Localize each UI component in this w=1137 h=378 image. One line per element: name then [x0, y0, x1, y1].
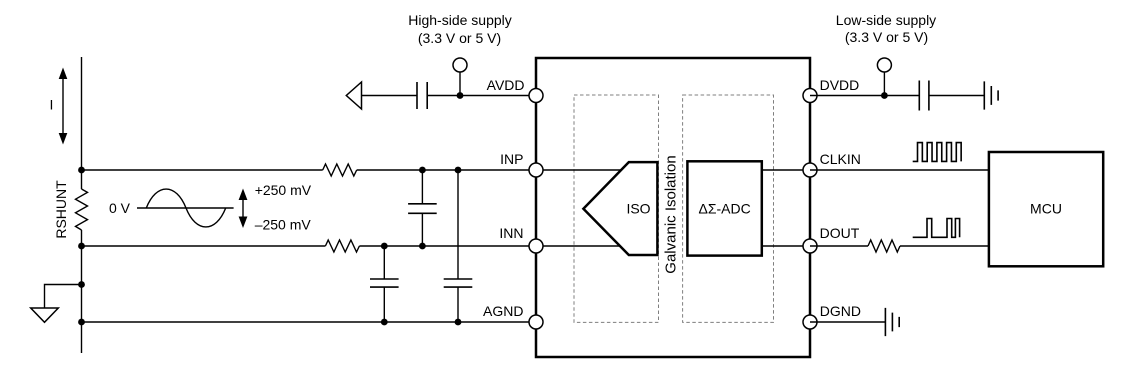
data waveform glyph [913, 219, 960, 238]
pin DOUT [803, 239, 817, 253]
node AGND cap C-INN [381, 319, 388, 326]
resistor R-INN [325, 240, 359, 252]
svg-text:DGND: DGND [820, 303, 861, 319]
svg-text:DVDD: DVDD [820, 77, 860, 93]
capacitor C-AVDD [417, 82, 427, 109]
svg-text:Low-side supply: Low-side supply [836, 12, 936, 28]
node ground branch junction [78, 281, 85, 288]
wire INN row [82, 245, 537, 247]
svg-text:CLKIN: CLKIN [820, 151, 861, 167]
svg-text:High-side supply: High-side supply [408, 12, 512, 28]
capacitor C-INN to AGND [370, 246, 399, 322]
capacitor C-diff INP-INN [408, 170, 437, 246]
capacitor C-DVDD [919, 81, 929, 111]
high-side floating ground arrow [346, 82, 361, 109]
high-side supply terminal [453, 58, 467, 96]
svg-text:Galvanic Isolation: Galvanic Isolation [663, 155, 680, 273]
wire CLKIN row [810, 169, 989, 171]
ground DGND earth [885, 308, 899, 336]
svg-text:ΔΣ-ADC: ΔΣ-ADC [698, 201, 750, 217]
pin DVDD [803, 89, 817, 103]
pin CLKIN [803, 163, 817, 177]
IC body [536, 58, 810, 357]
svg-text:–250 mV: –250 mV [255, 217, 312, 233]
ground DVDD earth [984, 81, 998, 109]
node INP cap C-diff [419, 167, 426, 174]
wire INP row [82, 169, 537, 171]
node INN cap C-INN [381, 243, 388, 250]
svg-text:MCU: MCU [1030, 201, 1062, 217]
isolation barrier dashed box right [683, 95, 774, 322]
svg-text:(3.3 V or 5 V): (3.3 V or 5 V) [418, 30, 501, 46]
node AGND cap C-INP [455, 319, 462, 326]
node INN cap C-diff [419, 243, 426, 250]
iso coupler U1 ISO [583, 162, 657, 255]
svg-text:ISO: ISO [626, 201, 650, 217]
wire left vertical shunt branch [81, 57, 83, 353]
wire DVDD row [810, 95, 984, 97]
wire CLKIN inside [762, 169, 810, 171]
pin INN [529, 239, 543, 253]
delta-sigma ADC block [687, 161, 761, 255]
sine zero axis [137, 207, 234, 209]
wire DOUT row [810, 245, 989, 247]
node DVDD supply junction [881, 92, 888, 99]
amplitude arrow [239, 189, 248, 229]
svg-text:AGND: AGND [483, 303, 523, 319]
isolation barrier dashed box left [574, 95, 659, 322]
wire AGND row [82, 321, 537, 323]
svg-text:+250 mV: +250 mV [255, 182, 312, 198]
svg-text:0 V: 0 V [109, 200, 131, 216]
clock waveform glyph [913, 143, 961, 162]
capacitor C-INP to AGND [444, 170, 473, 322]
low-side supply terminal [877, 58, 891, 96]
pin AVDD [529, 89, 543, 103]
wire AVDD row [362, 95, 537, 97]
svg-text:INN: INN [499, 225, 523, 241]
MCU block [989, 152, 1103, 266]
current arrow I [59, 68, 68, 145]
node AVDD supply junction [457, 92, 464, 99]
svg-text:I: I [50, 97, 54, 113]
svg-text:RSHUNT: RSHUNT [53, 180, 69, 239]
node INN shunt junction [78, 243, 85, 250]
node AGND shunt junction [78, 319, 85, 326]
ground high-side triangle [31, 308, 59, 322]
resistor R-INP [323, 164, 357, 176]
svg-text:INP: INP [500, 151, 523, 167]
wire DGND row [810, 321, 885, 323]
sine waveform [146, 189, 225, 227]
svg-text:AVDD: AVDD [487, 77, 525, 93]
wire DOUT inside [762, 245, 810, 247]
svg-text:(3.3 V or 5 V): (3.3 V or 5 V) [845, 29, 928, 45]
pin INP [529, 163, 543, 177]
wire INN inside [536, 245, 620, 247]
svg-text:DOUT: DOUT [820, 225, 860, 241]
wire INP inside [536, 169, 621, 171]
node INP shunt junction [78, 167, 85, 174]
wire ground branch [45, 285, 82, 308]
resistor RSHUNT [76, 189, 88, 230]
node INP cap C-INP [455, 167, 462, 174]
resistor R-DOUT [868, 240, 900, 252]
pin AGND [529, 315, 543, 329]
pin DGND [803, 315, 817, 329]
